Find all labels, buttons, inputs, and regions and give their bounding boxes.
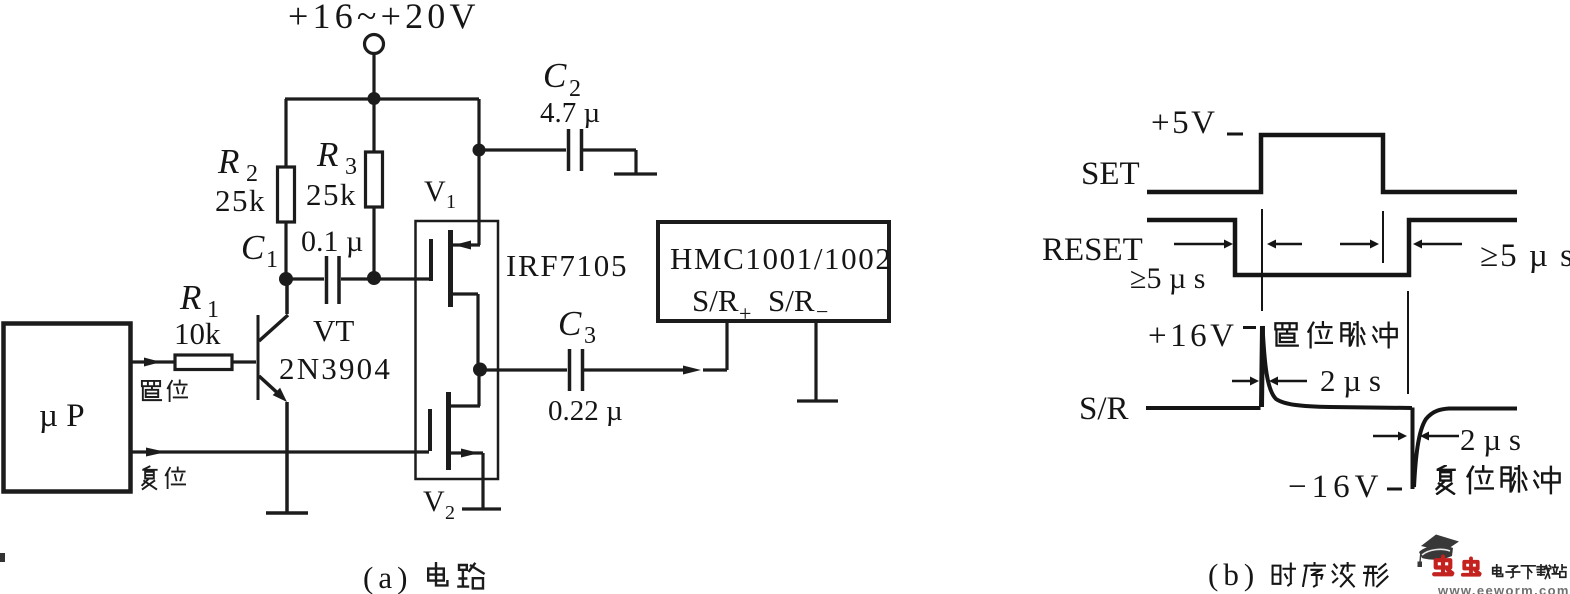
svg-text:1: 1 [446,191,456,213]
svg-text:SET: SET [1081,156,1140,192]
svg-text:2: 2 [445,502,455,524]
svg-text:−16V: −16V [1288,469,1383,505]
svg-text:+16V: +16V [1148,318,1237,354]
svg-text:S/R: S/R [692,283,739,318]
svg-text:(a): (a) [363,560,412,594]
svg-text:RESET: RESET [1042,232,1143,268]
svg-text:V: V [424,175,446,208]
svg-text:IRF7105: IRF7105 [506,248,628,283]
svg-text:µ P: µ P [39,398,85,434]
svg-text:3: 3 [584,323,596,349]
svg-text:1: 1 [266,247,278,273]
svg-text:2 µ s: 2 µ s [1460,422,1521,457]
svg-text:R: R [179,278,201,317]
svg-text:−: − [816,299,828,324]
svg-text:2N3904: 2N3904 [279,351,392,386]
svg-text:VT: VT [313,313,354,348]
svg-text:≥5 µ s: ≥5 µ s [1480,238,1570,274]
svg-text:4.7 µ: 4.7 µ [540,97,600,129]
svg-text:+16~+20V: +16~+20V [288,0,480,36]
svg-text:www.eeworm.com: www.eeworm.com [1437,583,1570,594]
svg-text:C: C [543,56,567,95]
svg-text:HMC1001/1002: HMC1001/1002 [670,241,892,276]
svg-text:10k: 10k [174,316,221,351]
svg-text:(b): (b) [1208,557,1259,592]
svg-text:2 µ s: 2 µ s [1320,363,1381,398]
svg-text:+: + [739,301,751,326]
svg-text:+5V: +5V [1151,105,1217,141]
svg-text:S/R: S/R [768,283,815,318]
svg-text:≥5 µ s: ≥5 µ s [1130,262,1205,295]
svg-text:V: V [423,485,445,518]
svg-text:25k: 25k [306,177,357,212]
svg-text:0.22 µ: 0.22 µ [548,395,623,427]
svg-text:R: R [217,142,239,181]
svg-text:S/R: S/R [1079,391,1129,427]
svg-text:C: C [558,304,582,343]
svg-text:R: R [316,135,338,174]
svg-text:0.1 µ: 0.1 µ [301,225,363,258]
svg-text:C: C [241,228,265,267]
svg-text:25k: 25k [215,183,266,218]
